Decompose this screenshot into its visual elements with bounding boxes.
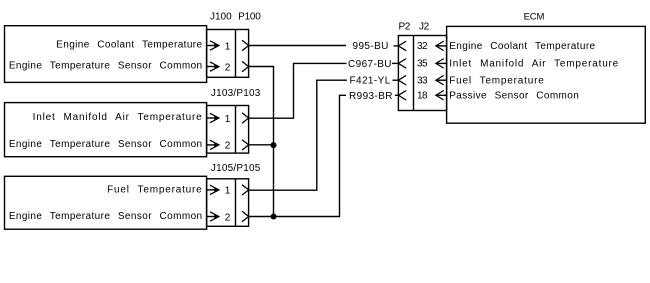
P100 pin 1 contact	[242, 40, 249, 50]
label J2	[419, 22, 430, 33]
P2 pin 35 contact	[398, 59, 406, 69]
connector J100/P100 body	[207, 30, 249, 78]
svg-text:33: 33	[417, 76, 428, 87]
wire F421-YL segment from P105-1	[249, 80, 347, 190]
svg-text:32: 32	[417, 41, 428, 52]
label J105/P105	[211, 163, 261, 174]
J100 pin 2 number	[225, 62, 231, 73]
svg-text:Engine Coolant Temperature: Engine Coolant Temperature	[449, 41, 595, 52]
svg-text:2: 2	[225, 141, 231, 152]
ECM pin 32 arrow	[436, 41, 447, 51]
svg-text:F421-YL: F421-YL	[350, 76, 391, 87]
wire C967-BU segment to P2-35	[392, 62, 398, 64]
P103 pin 2 contact	[242, 140, 249, 150]
wire label F421-YL	[350, 76, 391, 87]
P105 pin 1 contact	[242, 185, 249, 195]
svg-text:Engine Coolant Temperature: Engine Coolant Temperature	[56, 40, 202, 51]
wire C967-BU segment from P103-1	[249, 63, 347, 118]
label J103/P103	[211, 88, 261, 99]
P105 pin 2 contact	[242, 211, 249, 221]
wire R993-BR segment from P105-2 to riser	[249, 95, 346, 216]
P103 pin 1 contact	[242, 113, 249, 123]
P100 pin 2 contact	[242, 61, 249, 71]
svg-text:Fuel Temperature: Fuel Temperature	[107, 185, 202, 196]
J100 pin 2 arrow	[207, 62, 219, 71]
junction dot at J103-2 common	[271, 142, 277, 148]
svg-text:18: 18	[417, 91, 428, 102]
J105 pin 1 arrow	[207, 185, 219, 194]
J103 pin 2 arrow	[207, 140, 219, 149]
svg-text:2: 2	[225, 62, 231, 73]
svg-text:Engine Temperature Sensor Comm: Engine Temperature Sensor Common	[9, 211, 203, 222]
svg-text:J103/P103: J103/P103	[211, 88, 261, 99]
svg-text:J105/P105: J105/P105	[211, 163, 261, 174]
J100 pin 1 number	[225, 41, 231, 52]
ECM signal text: Inlet Manifold Air Temperature	[449, 59, 619, 70]
wire 995-BU segment to P2-32	[394, 45, 399, 47]
svg-text:J2: J2	[419, 22, 430, 33]
wire label 995-BU	[353, 41, 389, 52]
svg-text:2: 2	[225, 212, 231, 223]
sensor box B3 (fuel temperature sensor)	[5, 176, 207, 229]
svg-text:995-BU: 995-BU	[353, 41, 389, 52]
J103 pin 2 number	[225, 141, 231, 152]
J103 pin 1 number	[225, 114, 231, 125]
ECM pin 33 arrow	[436, 75, 447, 85]
label ECM	[524, 11, 545, 22]
wire R993-BR segment to P2-18	[395, 94, 398, 96]
sensor box B2 (inlet manifold air temperature sensor)	[5, 103, 207, 157]
svg-text:1: 1	[225, 41, 231, 52]
svg-text:1: 1	[225, 114, 231, 125]
ECM pin 35 arrow	[436, 59, 447, 69]
svg-text:P2: P2	[399, 22, 411, 33]
J103 pin 1 arrow	[207, 113, 219, 122]
svg-text:C967-BU: C967-BU	[348, 59, 392, 70]
svg-text:1: 1	[225, 186, 231, 197]
svg-text:Inlet Manifold Air Temperature: Inlet Manifold Air Temperature	[33, 112, 203, 123]
connector J105/P105 body	[207, 179, 249, 227]
svg-text:J100: J100	[210, 11, 232, 22]
svg-text:ECM: ECM	[524, 11, 545, 22]
ECM box	[447, 26, 646, 123]
wire label C967-BU	[348, 59, 392, 70]
ECM signal text: Engine Coolant Temperature	[449, 41, 595, 52]
J2 pin 32 number	[417, 41, 428, 52]
J2 pin 33 number	[417, 76, 428, 87]
J105 pin 1 number	[225, 186, 231, 197]
svg-text:R993-BR: R993-BR	[349, 91, 393, 102]
svg-text:Inlet Manifold Air Temperature: Inlet Manifold Air Temperature	[449, 59, 619, 70]
svg-text:Passive Sensor Common: Passive Sensor Common	[449, 91, 579, 102]
wire R993-BR stub from P103-2	[249, 144, 274, 146]
wire 995-BU segment from P100-1	[249, 45, 346, 47]
ECM pin 18 arrow	[436, 91, 447, 101]
connector J103/P103 body	[207, 106, 249, 154]
wire F421-YL segment to P2-33	[393, 79, 399, 81]
P2 pin 33 contact	[398, 75, 406, 85]
B3 signal text: Engine Temperature Sensor Common	[9, 211, 203, 222]
wire label R993-BR	[349, 91, 393, 102]
B1 signal text: Engine Temperature Sensor Common	[9, 61, 203, 72]
B3 signal text: Fuel Temperature	[107, 185, 202, 196]
sensor box B1 (engine coolant temperature sensor)	[5, 26, 207, 83]
label J100	[210, 11, 232, 22]
B1 signal text: Engine Coolant Temperature	[56, 40, 202, 51]
J100 pin 1 arrow	[207, 41, 219, 50]
svg-text:Engine Temperature Sensor Comm: Engine Temperature Sensor Common	[9, 139, 203, 150]
J2 pin 18 number	[417, 91, 428, 102]
J2 pin 35 number	[417, 59, 428, 70]
ECM signal text: Fuel Temperature	[449, 76, 544, 87]
svg-text:P100: P100	[238, 11, 261, 22]
P2 pin 32 contact	[398, 41, 406, 51]
label P2	[399, 22, 411, 33]
label P100	[238, 11, 261, 22]
svg-text:Fuel Temperature: Fuel Temperature	[449, 76, 544, 87]
ECM signal text: Passive Sensor Common	[449, 91, 579, 102]
B2 signal text: Engine Temperature Sensor Common	[9, 139, 203, 150]
connector P2/J2 body	[398, 36, 446, 111]
P2 pin 18 contact	[398, 91, 406, 101]
J105 pin 2 arrow	[207, 212, 219, 221]
J105 pin 2 number	[225, 212, 231, 223]
svg-text:Engine Temperature Sensor Comm: Engine Temperature Sensor Common	[9, 61, 203, 72]
junction dot at J105-2 common	[271, 214, 277, 220]
svg-text:35: 35	[417, 59, 428, 70]
B2 signal text: Inlet Manifold Air Temperature	[33, 112, 203, 123]
wire R993-BR common bus from P100-2 down	[249, 67, 274, 217]
